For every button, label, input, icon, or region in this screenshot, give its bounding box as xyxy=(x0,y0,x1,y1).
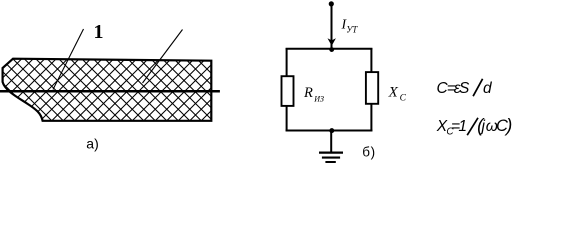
wire: right branch lower xyxy=(370,104,372,132)
conductive layer: thick middle line xyxy=(0,90,220,93)
junction node top xyxy=(329,47,334,52)
wire: top rail xyxy=(286,48,373,50)
leader line for label 1 xyxy=(53,29,84,90)
junction node bottom xyxy=(329,128,334,133)
svg-text:1: 1 xyxy=(458,118,467,135)
capacitor reactance X_C (box) xyxy=(366,72,378,104)
wire: left branch upper xyxy=(286,48,288,76)
wire: bottom rail xyxy=(286,130,373,132)
ground symbol xyxy=(319,152,343,154)
arrowhead of current I_UT xyxy=(328,38,336,46)
svg-text:R: R xyxy=(303,85,313,101)
wire: left branch lower xyxy=(286,106,288,131)
svg-text:C: C xyxy=(400,94,407,104)
insulator slab cross-section (hatched), figure a xyxy=(3,59,212,121)
wire: ground stem xyxy=(330,131,332,153)
svg-text:d: d xyxy=(483,80,493,97)
svg-text:1: 1 xyxy=(94,21,104,43)
svg-text:УТ: УТ xyxy=(346,24,358,34)
svg-text:б: б xyxy=(362,144,370,159)
leader line (second, unlabeled) xyxy=(143,30,183,84)
node: input terminal dot xyxy=(329,1,334,6)
wire: input current xyxy=(331,4,333,49)
wire: right branch upper xyxy=(370,48,372,72)
svg-text:X: X xyxy=(388,84,399,100)
svg-text:а): а) xyxy=(86,135,98,151)
svg-text:): ) xyxy=(371,144,376,159)
svg-text:S: S xyxy=(459,80,470,97)
svg-text:ИЗ: ИЗ xyxy=(313,95,324,104)
svg-text:): ) xyxy=(504,115,512,136)
resistor R_ИЗ (box) xyxy=(282,76,294,106)
